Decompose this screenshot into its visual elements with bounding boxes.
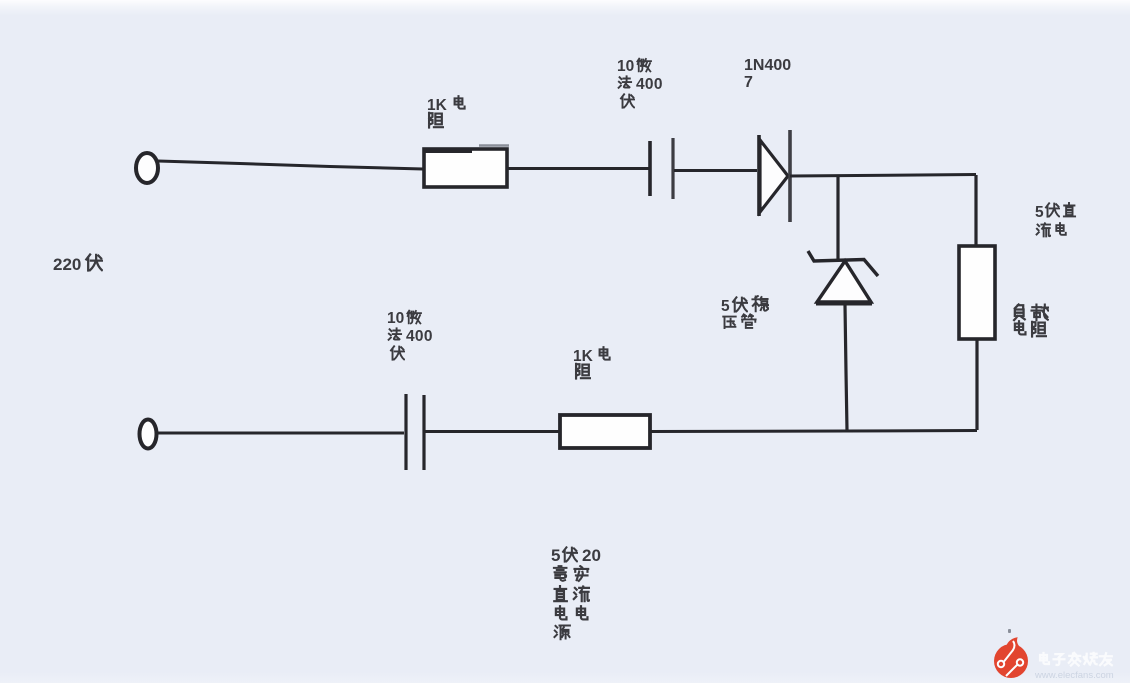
svg-text:1N400: 1N400 [744, 57, 791, 74]
svg-text:220: 220 [53, 255, 81, 274]
svg-text:400: 400 [636, 76, 663, 93]
svg-text:10: 10 [387, 310, 404, 327]
svg-text:1K: 1K [427, 97, 448, 114]
svg-text:10: 10 [617, 58, 634, 75]
svg-text:1K: 1K [573, 348, 594, 365]
svg-text:20: 20 [582, 546, 601, 565]
svg-text:5: 5 [551, 546, 560, 565]
svg-text:400: 400 [406, 328, 433, 345]
svg-text:5: 5 [721, 298, 730, 315]
svg-text:www.elecfans.com: www.elecfans.com [1034, 670, 1114, 681]
svg-text:7: 7 [744, 74, 753, 91]
svg-text:5: 5 [1035, 204, 1044, 221]
